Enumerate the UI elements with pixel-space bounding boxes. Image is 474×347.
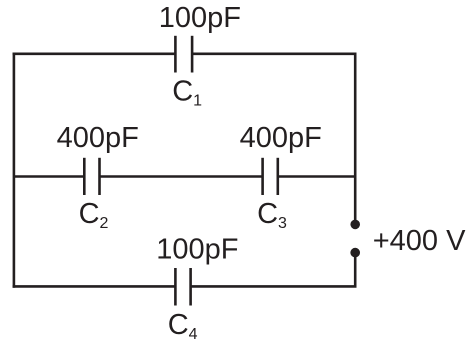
terminal node negative xyxy=(350,248,360,258)
capacitor C4 plates xyxy=(175,268,190,306)
svg-text:+400 V: +400 V xyxy=(373,225,466,257)
capacitor C2 plates xyxy=(84,158,99,195)
svg-text:400pF: 400pF xyxy=(57,122,139,154)
capacitor C1 plates xyxy=(175,36,192,73)
wire right vertical upper xyxy=(354,54,357,225)
svg-text:C2: C2 xyxy=(79,198,109,232)
capacitor C3 plates xyxy=(263,158,278,195)
wire right vertical lower xyxy=(354,253,357,287)
svg-text:400pF: 400pF xyxy=(240,122,322,154)
wire top left segment xyxy=(13,52,176,55)
terminal node positive xyxy=(350,220,360,230)
svg-text:C3: C3 xyxy=(257,198,287,232)
svg-text:C4: C4 xyxy=(168,309,198,343)
svg-text:100pF: 100pF xyxy=(156,233,238,265)
wire bottom left segment xyxy=(13,285,176,288)
wire top right segment xyxy=(192,52,356,55)
wire left vertical xyxy=(13,53,16,288)
wire bottom right segment xyxy=(191,285,357,288)
wire middle left segment xyxy=(14,175,84,178)
svg-text:C1: C1 xyxy=(172,76,202,110)
wire middle center segment xyxy=(100,175,263,178)
svg-text:100pF: 100pF xyxy=(159,2,241,34)
wire middle right segment xyxy=(278,175,355,178)
